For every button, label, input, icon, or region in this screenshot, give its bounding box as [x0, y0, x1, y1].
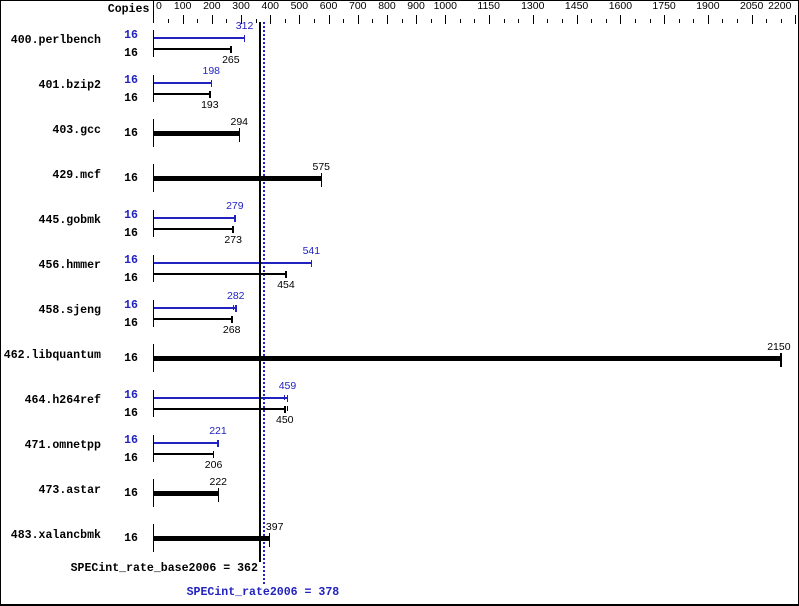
major tick 100	[183, 15, 184, 24]
471.omnetpp base bar end cap	[213, 451, 215, 458]
403.gcc bar (294)	[154, 131, 239, 136]
456.hmmer group left axis serif	[153, 255, 154, 282]
400.perlbench base copies 16	[124, 48, 138, 60]
axis label 200	[203, 1, 221, 12]
SPECint_rate2006 peak line (blue dotted) at 378	[263, 22, 265, 584]
462.libquantum value 2150	[767, 342, 790, 353]
axis label 2050	[740, 1, 763, 12]
minor tick 550	[314, 19, 315, 23]
401.bzip2 base bar end cap	[209, 91, 211, 98]
464.h264ref base bar end cap	[284, 406, 286, 413]
464.h264ref base run tick at 459	[287, 406, 288, 411]
axis label 2200	[768, 1, 791, 12]
471.omnetpp peak copies 16	[124, 435, 138, 447]
471.omnetpp base value 206	[205, 460, 223, 471]
border top	[0, 0, 799, 1]
401.bzip2 base bar (193)	[154, 93, 210, 95]
axis label 1600	[609, 1, 632, 12]
401.bzip2 group left axis serif	[153, 75, 154, 102]
minor tick 650	[343, 19, 344, 23]
major tick 700	[358, 15, 359, 24]
483.xalancbmk copies 16	[124, 533, 138, 545]
major tick 500	[299, 15, 300, 24]
464.h264ref base bar (450)	[154, 408, 285, 410]
axis label 600	[320, 1, 338, 12]
axis label 100	[174, 1, 192, 12]
benchmark label 401.bzip2	[39, 80, 101, 92]
minor tick 1850	[693, 19, 694, 23]
axis label 300	[232, 1, 250, 12]
462.libquantum copies 16	[124, 353, 138, 365]
483.xalancbmk group left axis serif	[153, 524, 154, 552]
458.sjeng base copies 16	[124, 318, 138, 330]
minor tick 1650	[635, 19, 636, 23]
464.h264ref peak bar (459)	[154, 397, 287, 399]
axis label 700	[349, 1, 367, 12]
minor tick 850	[402, 19, 403, 23]
benchmark label 429.mcf	[52, 170, 101, 182]
peak result label	[187, 587, 340, 599]
minor tick 450	[285, 19, 286, 23]
minor tick 1800	[679, 19, 680, 23]
456.hmmer peak bar (541)	[154, 262, 311, 264]
458.sjeng base bar end cap	[231, 316, 233, 323]
401.bzip2 peak bar (198)	[154, 82, 211, 84]
benchmark label 403.gcc	[52, 125, 101, 137]
major tick 2050	[752, 15, 753, 24]
border left	[0, 0, 1, 606]
SPECint_rate_base2006 line (black solid) at 362	[259, 22, 261, 562]
458.sjeng base value 268	[223, 325, 241, 336]
major tick 600	[329, 15, 330, 24]
400.perlbench peak bar (312)	[154, 37, 245, 39]
minor tick 1550	[606, 19, 607, 23]
429.mcf value 575	[313, 162, 331, 173]
minor tick 2100	[766, 19, 767, 23]
456.hmmer base copies 16	[124, 273, 138, 285]
minor tick 50	[168, 19, 169, 23]
401.bzip2 base copies 16	[124, 93, 138, 105]
400.perlbench peak copies 16	[124, 30, 138, 42]
483.xalancbmk value 397	[266, 522, 284, 533]
456.hmmer base bar end cap	[285, 271, 287, 278]
axis label 1150	[477, 1, 500, 12]
minor tick 1100	[474, 19, 475, 23]
458.sjeng group left axis serif	[153, 300, 154, 327]
base result label	[71, 563, 258, 575]
400.perlbench base bar (265)	[154, 48, 231, 50]
axis label 1300	[521, 1, 544, 12]
483.xalancbmk bar (397)	[154, 536, 269, 541]
minor tick 750	[372, 19, 373, 23]
benchmark label 483.xalancbmk	[11, 530, 101, 542]
464.h264ref peak value 459	[279, 381, 297, 392]
456.hmmer base bar (454)	[154, 273, 286, 275]
major tick 300	[241, 15, 242, 24]
473.astar bar end cap	[218, 488, 220, 502]
benchmark label 473.astar	[39, 485, 101, 497]
major tick 800	[387, 15, 388, 24]
445.gobmk peak value 279	[226, 201, 244, 212]
400.perlbench peak bar end cap	[244, 35, 246, 42]
minor tick 350	[256, 19, 257, 23]
458.sjeng peak copies 16	[124, 300, 138, 312]
401.bzip2 base value 193	[201, 100, 219, 111]
major tick 200	[212, 15, 213, 24]
445.gobmk peak bar (279)	[154, 217, 235, 219]
benchmark label 471.omnetpp	[25, 440, 101, 452]
axis label 1450	[565, 1, 588, 12]
minor tick 2000	[737, 19, 738, 23]
403.gcc copies 16	[124, 128, 138, 140]
471.omnetpp peak bar end cap	[217, 440, 219, 447]
major tick 1900	[708, 15, 709, 24]
403.gcc group left axis serif	[153, 119, 154, 147]
458.sjeng peak bar end cap	[235, 305, 237, 312]
456.hmmer peak bar end cap	[311, 260, 313, 267]
minor tick 250	[226, 19, 227, 23]
445.gobmk base bar end cap	[232, 226, 234, 233]
benchmark label 458.sjeng	[39, 305, 101, 317]
456.hmmer peak value 541	[303, 246, 321, 257]
minor tick 1700	[650, 19, 651, 23]
axis label 0	[156, 1, 162, 12]
401.bzip2 peak copies 16	[124, 75, 138, 87]
axis label 1750	[652, 1, 675, 12]
minor tick 2150	[781, 19, 782, 23]
major tick 1450	[577, 15, 578, 24]
471.omnetpp peak bar (221)	[154, 442, 218, 444]
minor tick 1950	[722, 19, 723, 23]
471.omnetpp group left axis serif	[153, 435, 154, 462]
471.omnetpp peak value 221	[209, 426, 227, 437]
473.astar bar (222)	[154, 491, 218, 496]
473.astar value 222	[210, 477, 228, 488]
400.perlbench group left axis serif	[153, 30, 154, 57]
464.h264ref peak copies 16	[124, 390, 138, 402]
axis label 400	[262, 1, 280, 12]
458.sjeng peak bar (282)	[154, 307, 236, 309]
major tick 1150	[489, 15, 490, 24]
456.hmmer peak copies 16	[124, 255, 138, 267]
major tick 1600	[620, 15, 621, 24]
473.astar copies 16	[124, 488, 138, 500]
major tick 1750	[664, 15, 665, 24]
462.libquantum bar end cap	[780, 353, 782, 367]
464.h264ref peak bar end cap	[287, 395, 289, 402]
axis label 900	[407, 1, 425, 12]
major tick 400	[270, 15, 271, 24]
axis separator line	[153, 1, 154, 23]
major tick 900	[416, 15, 417, 24]
473.astar group left axis serif	[153, 479, 154, 507]
429.mcf bar (575)	[154, 176, 321, 181]
major tick 1000	[445, 15, 446, 24]
401.bzip2 peak value 198	[203, 66, 221, 77]
458.sjeng peak run tick at 275	[233, 305, 234, 310]
benchmark label 462.libquantum	[4, 350, 101, 362]
axis label 1000	[434, 1, 457, 12]
major tick 1300	[533, 15, 534, 24]
429.mcf bar end cap	[321, 173, 323, 187]
border bottom	[0, 604, 799, 606]
462.libquantum group left axis serif	[153, 344, 154, 372]
429.mcf group left axis serif	[153, 164, 154, 192]
minor tick 150	[197, 19, 198, 23]
minor tick 1350	[547, 19, 548, 23]
471.omnetpp base copies 16	[124, 453, 138, 465]
429.mcf copies 16	[124, 173, 138, 185]
axis label 1900	[696, 1, 719, 12]
462.libquantum bar (2150)	[154, 356, 781, 361]
minor tick 1200	[504, 19, 505, 23]
benchmark label 464.h264ref	[25, 395, 101, 407]
minor tick 1500	[591, 19, 592, 23]
benchmark label 400.perlbench	[11, 35, 101, 47]
axis label 500	[291, 1, 309, 12]
border right	[798, 0, 799, 606]
458.sjeng base bar (268)	[154, 318, 232, 320]
445.gobmk peak bar end cap	[234, 215, 236, 222]
400.perlbench peak value 312	[236, 21, 254, 32]
445.gobmk base copies 16	[124, 228, 138, 240]
benchmark label 456.hmmer	[39, 260, 101, 272]
456.hmmer base value 454	[277, 280, 295, 291]
minor tick 1250	[518, 19, 519, 23]
400.perlbench base bar end cap	[230, 46, 232, 53]
445.gobmk base value 273	[224, 235, 242, 246]
403.gcc bar end cap	[239, 128, 241, 142]
445.gobmk group left axis serif	[153, 210, 154, 237]
458.sjeng peak value 282	[227, 291, 245, 302]
464.h264ref base value 450	[276, 415, 294, 426]
464.h264ref peak run tick at 450	[284, 395, 285, 400]
401.bzip2 peak bar end cap	[211, 80, 213, 87]
464.h264ref base copies 16	[124, 408, 138, 420]
minor tick 950	[431, 19, 432, 23]
axis label 800	[378, 1, 396, 12]
445.gobmk peak copies 16	[124, 210, 138, 222]
Copies header	[108, 4, 150, 16]
400.perlbench base value 265	[222, 55, 240, 66]
445.gobmk base bar (273)	[154, 228, 233, 230]
benchmark label 445.gobmk	[39, 215, 101, 227]
minor tick 1400	[562, 19, 563, 23]
483.xalancbmk bar end cap	[269, 533, 271, 547]
major tick 2200	[795, 15, 796, 24]
464.h264ref group left axis serif	[153, 390, 154, 417]
471.omnetpp base bar (206)	[154, 453, 214, 455]
403.gcc value 294	[231, 117, 249, 128]
minor tick 1050	[460, 19, 461, 23]
